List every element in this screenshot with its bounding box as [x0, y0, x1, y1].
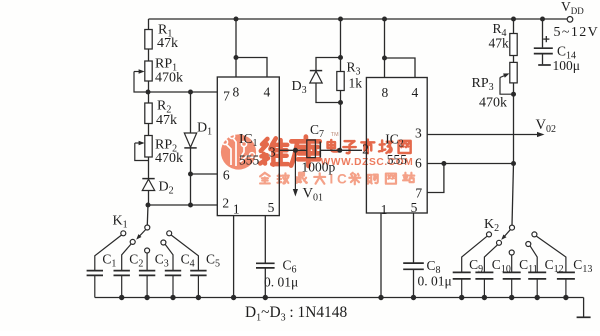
node VDD terminal [567, 17, 573, 23]
junction bus [459, 295, 464, 300]
wire IC2 pin7 bracket [427, 164, 444, 193]
switch K2 throw 4 [526, 242, 531, 247]
wire C11 to ground bus [511, 279, 513, 298]
wire pin 6 to IC1 [191, 173, 218, 175]
wire C8 to bus [413, 269, 415, 297]
wire K1 throw4 to C4 [165, 244, 173, 270]
capacitor C5 [190, 271, 206, 276]
node A junction [146, 90, 151, 95]
potentiometer RP3 [510, 62, 517, 83]
svg-text:6: 6 [223, 168, 230, 183]
wire IC2 pin3 V02 output [427, 134, 538, 136]
wire R4 to RP3 [513, 56, 515, 63]
switch K1 throw 3 [145, 248, 150, 253]
wire K1 throw5 to C5 [171, 235, 198, 270]
wire C9 to ground bus [461, 279, 463, 298]
wire pin 2 rail to IC1 [148, 204, 217, 206]
svg-text:TM: TM [331, 132, 339, 138]
wire C5 to ground bus [197, 275, 199, 297]
capacitor C6 [256, 263, 275, 268]
watermark url text www.dzsc.com [321, 157, 414, 168]
svg-text:100μ: 100μ [553, 58, 581, 73]
svg-text:555: 555 [239, 153, 260, 168]
capacitor C10 [475, 272, 493, 279]
switch K1 throw 2 [130, 239, 135, 244]
diode D1 [184, 133, 196, 148]
svg-text:5: 5 [411, 200, 418, 215]
junction R3 bottom rail [337, 148, 342, 153]
wire K1 throw2 to C2 [122, 244, 132, 270]
wire R1 top lead [148, 19, 150, 30]
diode D3 [310, 71, 322, 83]
junction top rail to R3 [338, 17, 343, 22]
junction top rail to IC1 pins [234, 17, 239, 22]
junction D2 bottom [146, 203, 151, 208]
switch K2 pole [510, 225, 515, 230]
svg-text:1: 1 [233, 202, 240, 217]
wire K1 throw1 to C1 [95, 235, 122, 270]
svg-text:2: 2 [222, 196, 229, 211]
wire IC1 pin8 pin4 bracket [235, 19, 237, 77]
diode D2 [142, 179, 154, 191]
switch K2 throw 5 [532, 232, 537, 237]
wire K2 throw2 to C10 [484, 245, 497, 272]
wire D2 to pin2 rail [148, 191, 150, 206]
op-amp timer IC1 555 box [217, 77, 279, 216]
wire C6 to bus [264, 268, 266, 298]
junction pin6 pin7 bracket [441, 161, 446, 166]
switch K1 pole [145, 225, 150, 230]
junction bus [263, 295, 268, 300]
switch K2 throw 1 [487, 232, 492, 237]
junction bus [411, 295, 416, 300]
wire C1 to ground bus [94, 275, 96, 297]
junction D1 top [188, 90, 193, 95]
capacitor C9 [453, 272, 471, 279]
switch K1 throw 4 [161, 240, 166, 245]
watermark small characters dianzishichangwang [328, 140, 411, 154]
wire top rail to R3 [340, 19, 342, 72]
junction bus [509, 295, 514, 300]
wire C7 to IC2 pin2 [320, 149, 362, 151]
svg-text:0. 01μ: 0. 01μ [264, 275, 298, 290]
capacitor C11 [503, 272, 521, 279]
svg-text:5~12V: 5~12V [554, 25, 600, 40]
wire to K1 pole [146, 205, 149, 225]
watermark row quanqiuzuida IC caigouwangzhan [260, 172, 414, 187]
capacitor C12 [528, 272, 546, 279]
ground symbol [577, 298, 591, 318]
svg-text:47k: 47k [157, 36, 178, 51]
wire K2 throw5 to C13 [537, 236, 566, 272]
wire IC2 pin1 to bus [380, 213, 382, 298]
wire D3 branch bottom [316, 83, 341, 103]
wire R3 bottom [340, 91, 342, 151]
svg-text:1k: 1k [349, 76, 363, 91]
wire C13 to ground bus [565, 279, 567, 298]
wire C2 to ground bus [121, 275, 123, 297]
capacitor C8 [403, 263, 424, 269]
junction bus [196, 295, 201, 300]
resistor R1 [145, 30, 152, 50]
svg-text:47k: 47k [156, 113, 177, 128]
wire RP2 wiper [135, 142, 143, 144]
op-amp timer IC2 555 box [366, 78, 427, 214]
resistor R4 [510, 34, 517, 56]
junction IC2 pin8 bracket [382, 56, 387, 61]
svg-text:8: 8 [233, 85, 240, 100]
wire IC2 pin8 pin4 bracket [384, 19, 386, 78]
wire top supply rail [149, 18, 568, 20]
svg-text:470k: 470k [479, 96, 507, 111]
switch K2 throw 3 [509, 250, 514, 255]
capacitor C4 [165, 271, 181, 276]
wire V01 arrow [294, 150, 296, 190]
wire K2 throw1 to C9 [462, 236, 487, 272]
svg-text:8: 8 [382, 85, 389, 100]
svg-text:5: 5 [268, 200, 275, 215]
wire IC1 pin1 to bus [233, 216, 235, 298]
junction D3 bottom [338, 100, 343, 105]
junction bus [563, 295, 568, 300]
junction bus [378, 295, 383, 300]
junction bus [170, 295, 175, 300]
switch K2 arm [503, 230, 511, 239]
wire IC1 pin3 output [279, 149, 307, 151]
watermark big characters wei-ku [260, 137, 320, 166]
svg-text:470k: 470k [155, 151, 183, 166]
wire C12 to ground bus [536, 279, 538, 298]
capacitor C3 [139, 271, 155, 276]
svg-text:2: 2 [362, 142, 369, 157]
wire C10 to ground bus [483, 279, 485, 298]
wire ground bus [95, 297, 584, 299]
svg-text:D1~D3 : 1N4148: D1~D3 : 1N4148 [245, 304, 347, 323]
capacitor C7 [307, 140, 321, 158]
switch K1 throw 5 [167, 231, 172, 236]
junction bus [482, 295, 487, 300]
junction D1 pin6 [188, 172, 193, 177]
switch K1 arm [138, 230, 146, 239]
capacitor C14 electrolytic [534, 19, 553, 65]
wire IC1 pin5 to C6 [264, 216, 266, 263]
wire D1 to pin6 junction [190, 148, 192, 205]
wire pin6 junction to K2 pole [512, 164, 514, 226]
svg-text:3: 3 [269, 145, 276, 160]
watermark logo circle [221, 133, 256, 169]
potentiometer RP1 [145, 61, 152, 81]
wire top rail to R4 [513, 19, 515, 34]
resistor R3 [337, 72, 344, 91]
wire RP2 to D2 [148, 157, 150, 179]
junction top rail to R4 [511, 17, 516, 22]
capacitor C13 [557, 272, 575, 279]
capacitor C2 [114, 271, 130, 276]
wire RP3 to pin6 rail [513, 83, 515, 164]
wire IC2 pin5 to C8 [413, 213, 415, 263]
wire R2 to RP2 [148, 124, 150, 136]
svg-text:4: 4 [412, 85, 419, 100]
wire K2 throw3 to C11 [511, 255, 513, 272]
wire D1 vertical [190, 92, 192, 133]
wire C3 to ground bus [146, 275, 148, 297]
resistor R2 [145, 103, 152, 124]
junction pin6 to K2 feed [511, 161, 516, 166]
potentiometer RP2 [145, 136, 152, 158]
wire RP1 wiper [134, 71, 143, 73]
switch K2 throw 2 [497, 240, 502, 245]
svg-text:1000p: 1000p [302, 160, 336, 175]
junction top rail to C14 [540, 17, 545, 22]
wire RP1 to node A [148, 81, 150, 92]
junction RP3 bottom [511, 92, 516, 97]
wire node A to IC1 pin 7 [148, 91, 217, 93]
wire R1 to RP1 [148, 49, 150, 61]
wire C4 to ground bus [172, 275, 174, 297]
switch K1 throw 1 [121, 231, 126, 236]
svg-text:6: 6 [415, 156, 422, 171]
junction bus [144, 295, 149, 300]
junction bus [231, 295, 236, 300]
junction bus [119, 295, 124, 300]
svg-text:7: 7 [223, 89, 230, 104]
svg-text:3: 3 [415, 126, 422, 141]
junction bus [535, 295, 540, 300]
wire IC2 pin6 [427, 163, 513, 165]
wire RP3 wiper [500, 74, 508, 77]
junction V01 takeoff [293, 148, 298, 153]
wire K1 throw3 to C3 [146, 253, 148, 270]
wire R2 top lead [148, 92, 150, 103]
junction D3 top [338, 55, 343, 60]
junction D1 bottom rail [188, 203, 193, 208]
svg-text:4: 4 [264, 85, 271, 100]
wire D3 branch top [316, 58, 341, 71]
svg-text:7: 7 [415, 185, 422, 200]
capacitor C1 [87, 271, 103, 276]
wire K2 throw4 to C12 [530, 246, 537, 272]
svg-text:47k: 47k [489, 36, 510, 51]
svg-text:555: 555 [387, 152, 408, 167]
svg-text:470k: 470k [155, 71, 183, 86]
junction IC1 pin8 bracket [234, 55, 239, 60]
svg-text:0. 01μ: 0. 01μ [418, 274, 452, 289]
junction top rail to IC2 pins [382, 17, 387, 22]
